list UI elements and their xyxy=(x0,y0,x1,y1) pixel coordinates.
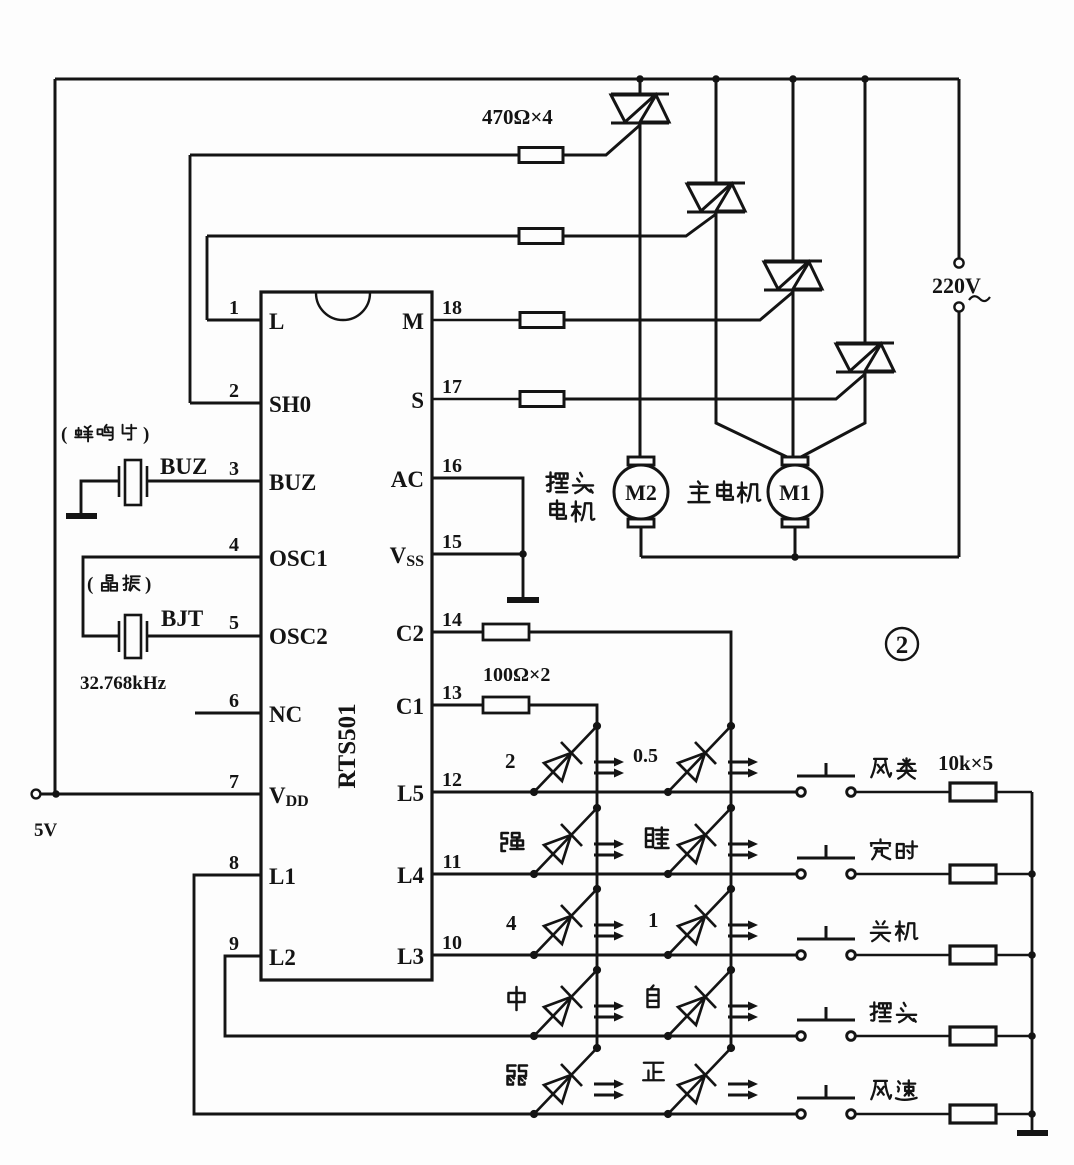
triac VS3 xyxy=(764,261,822,290)
ground: buzzer xyxy=(66,513,97,519)
junction: bus / triac VS3 anode xyxy=(789,75,797,83)
svg-text:12: 12 xyxy=(442,769,462,791)
label: 强 xyxy=(502,833,524,851)
pushbutton S4 bai tou (oscillate) xyxy=(797,1007,856,1040)
resistor 470ohm (VS1 gate) xyxy=(519,148,563,163)
terminal: 5V supply xyxy=(32,790,41,799)
wire: triac VS4 to motor M1 xyxy=(801,372,865,457)
junction: M1 / neutral xyxy=(791,553,799,561)
wire: triac VS3 to motor M1 xyxy=(792,290,795,457)
label: 弱 xyxy=(508,1066,528,1085)
wire: pin 9 L2 to fourth LED row xyxy=(225,956,797,1036)
wire: pin 2 SH0 xyxy=(190,402,261,405)
LED: 自 natural wind xyxy=(668,970,731,1036)
wire: S5 to resistor xyxy=(855,1113,951,1116)
wire: pin 14 C2 xyxy=(432,631,483,634)
resistor 10k (row 3) xyxy=(950,946,996,964)
junction: bus row5 xyxy=(1028,1110,1036,1118)
svg-text:(: ( xyxy=(87,574,93,595)
svg-text:L3: L3 xyxy=(397,944,424,969)
pushbutton S5 feng su (wind speed) xyxy=(797,1085,856,1118)
resistor 470ohm (VS3 gate) xyxy=(520,313,564,328)
wire: S2 to resistor xyxy=(855,873,951,876)
resistor 470ohm (VS4 gate) xyxy=(520,392,564,407)
svg-text:14: 14 xyxy=(442,609,462,631)
label: 主电机 (main motor) xyxy=(688,481,709,502)
terminal: 220V line xyxy=(954,258,963,267)
LED: 睡 sleep wind xyxy=(668,808,731,874)
wire: pin1 riser xyxy=(206,236,209,320)
wire: resistor to ground bus xyxy=(996,1113,1032,1116)
wire: bus to triac VS2 xyxy=(715,79,718,183)
label: (蜂鸣片) piezo plate xyxy=(75,426,92,442)
svg-text:17: 17 xyxy=(442,376,462,398)
wire: pin 13 C1 xyxy=(432,704,483,707)
LED: 1h (timer) xyxy=(668,889,731,955)
svg-text:5V: 5V xyxy=(34,820,58,841)
svg-text:NC: NC xyxy=(269,702,302,727)
junction: 5V rail / pin7 xyxy=(52,790,60,798)
LED: 0.5h (timer) xyxy=(668,726,731,792)
wire: buzzer to pin 3 BUZ xyxy=(147,480,261,483)
resistor 100ohm (C2) xyxy=(483,624,529,640)
svg-text:7: 7 xyxy=(229,771,239,793)
wire: pin 6 NC stub xyxy=(195,712,261,715)
svg-text:10k×5: 10k×5 xyxy=(938,751,993,775)
triac VS2 xyxy=(687,183,745,212)
svg-text:): ) xyxy=(143,424,149,445)
LED: 强 strong wind xyxy=(534,808,597,874)
svg-text:0.5: 0.5 xyxy=(633,745,658,767)
wire: resistor to VS1 gate xyxy=(563,125,640,155)
resistor 10k (row 1) xyxy=(950,783,996,801)
wire: S3 to resistor xyxy=(855,954,951,957)
wire: resistor to VS2 gate xyxy=(563,214,716,236)
wire: resistor to ground bus xyxy=(996,1035,1032,1038)
svg-text:5: 5 xyxy=(229,612,239,634)
wire: motor neutral return xyxy=(641,556,959,559)
label: feng su (wind speed) xyxy=(871,1081,891,1099)
triac VS4 xyxy=(836,343,894,372)
junction: AC / VSS xyxy=(519,550,527,558)
wire: resistor to ground bus xyxy=(996,791,1032,794)
motor M1 (main motor) xyxy=(768,457,822,527)
wire: C2 column xyxy=(529,632,731,1049)
motor M2 (oscillating head) xyxy=(614,457,668,527)
ground: VSS xyxy=(507,597,539,603)
svg-text:L4: L4 xyxy=(397,863,424,888)
wire: resistor to VS4 gate xyxy=(564,374,865,399)
wire: 220V neutral to motors xyxy=(958,312,961,557)
svg-text:2: 2 xyxy=(896,632,909,659)
wire: pin 4 OSC1 to crystal xyxy=(83,557,261,636)
label: 电机 (motor) xyxy=(550,500,566,518)
svg-text:BUZ: BUZ xyxy=(160,454,207,479)
svg-text:(: ( xyxy=(61,424,67,445)
junction: bus row3 xyxy=(1028,951,1036,959)
svg-text:6: 6 xyxy=(229,690,239,712)
svg-text:2: 2 xyxy=(505,749,516,773)
terminal: 220V neutral xyxy=(954,302,963,311)
wire: pin 16 AC xyxy=(432,478,523,554)
wire: pin 10 L3 row xyxy=(432,954,797,957)
wire: M1 to neutral xyxy=(794,527,797,557)
wire: S gate row (pin17) xyxy=(432,398,520,401)
wire: M2 to neutral xyxy=(640,527,643,557)
svg-text:32.768kHz: 32.768kHz xyxy=(80,673,167,694)
label: ding shi (timer) xyxy=(871,839,890,859)
svg-text:BJT: BJT xyxy=(161,606,203,631)
pushbutton S1 feng lei (wind type) xyxy=(797,763,856,796)
svg-text:4: 4 xyxy=(506,911,517,935)
svg-text:16: 16 xyxy=(442,455,462,477)
label: guan ji (power off) xyxy=(871,921,890,941)
resistor 100ohm (C1) xyxy=(483,697,529,713)
LED: 中 medium wind xyxy=(534,970,597,1036)
svg-text:2: 2 xyxy=(229,380,239,402)
wire: bus to triac VS3 xyxy=(792,79,795,261)
wire: pin 1 L xyxy=(207,319,261,322)
svg-text:L5: L5 xyxy=(397,781,424,806)
LED: 2h (timer) xyxy=(534,726,597,792)
svg-text:470Ω×4: 470Ω×4 xyxy=(482,105,553,129)
wire: bus to triac VS1 xyxy=(639,79,642,94)
resistor 10k (row 2) xyxy=(950,865,996,883)
IC U1 RTS501 xyxy=(261,292,432,980)
svg-text:S: S xyxy=(411,388,424,413)
label: (晶振) crystal xyxy=(102,575,117,591)
svg-text:15: 15 xyxy=(442,531,462,553)
wire: pin 8 L1 to bottom LED row xyxy=(194,875,797,1114)
junction: bus row2 xyxy=(1028,870,1036,878)
label: bai tou (oscillate) xyxy=(870,1002,890,1021)
label: feng lei (wind type) xyxy=(871,759,891,777)
buzzer BUZ (piezo) xyxy=(125,460,141,505)
svg-text:SH0: SH0 xyxy=(269,392,311,417)
resistor 470ohm (VS2 gate) xyxy=(519,229,563,244)
pushbutton S3 guan ji (power off) xyxy=(797,926,856,959)
wire: resistor to ground bus xyxy=(996,873,1032,876)
wire: S4 to resistor xyxy=(855,1035,951,1038)
svg-text:L: L xyxy=(269,309,284,334)
wire: buzzer to ground xyxy=(81,481,119,513)
svg-text:L2: L2 xyxy=(269,945,296,970)
svg-text:): ) xyxy=(145,574,151,595)
wire: 5V to pin 7 VDD xyxy=(41,793,261,796)
svg-text:OSC2: OSC2 xyxy=(269,624,328,649)
svg-text:18: 18 xyxy=(442,297,462,319)
ground: button bus xyxy=(1017,1130,1048,1136)
wire: C1 column xyxy=(529,705,597,1049)
wire: pin 15 VSS xyxy=(432,553,523,556)
svg-text:OSC1: OSC1 xyxy=(269,546,328,571)
svg-text:9: 9 xyxy=(229,933,239,955)
label: 中 xyxy=(509,987,525,1010)
label: 正 xyxy=(643,1063,664,1080)
svg-text:RTS501: RTS501 xyxy=(334,703,361,788)
svg-text:C2: C2 xyxy=(396,621,424,646)
wire: triac VS2 to motor M1 xyxy=(716,212,787,457)
wire: bus to 220V terminal xyxy=(958,79,961,258)
wire: resistor to VS3 gate xyxy=(564,292,793,320)
wire: crystal to pin 5 OSC2 xyxy=(147,635,261,638)
resistor 10k (row 5) xyxy=(950,1105,996,1123)
svg-text:220V: 220V xyxy=(932,273,981,298)
svg-text:AC: AC xyxy=(391,467,424,492)
label: 自 xyxy=(647,985,658,1007)
triac VS1 (oscillating-head motor) xyxy=(611,94,669,123)
label: 摆头 (oscillating head) xyxy=(546,472,567,492)
svg-text:1: 1 xyxy=(648,908,659,932)
resistor 10k (row 4) xyxy=(950,1027,996,1045)
svg-text:13: 13 xyxy=(442,682,462,704)
junction: bus / triac VS1 anode xyxy=(636,75,644,83)
wire: triac VS1 to motor M2 xyxy=(639,123,642,457)
wire: VSS to ground xyxy=(522,554,525,597)
svg-text:8: 8 xyxy=(229,852,239,874)
wire: S1 to resistor xyxy=(855,791,951,794)
svg-text:4: 4 xyxy=(229,534,239,556)
svg-text:3: 3 xyxy=(229,458,239,480)
wire: SH0 gate row (pin2) xyxy=(190,154,519,157)
LED: 弱 weak wind xyxy=(534,1048,597,1114)
wire: resistor to ground bus xyxy=(996,954,1032,957)
svg-text:L1: L1 xyxy=(269,864,296,889)
svg-text:M: M xyxy=(402,309,424,334)
label: figure number 2 (circled) xyxy=(886,628,918,660)
junction: bus / triac VS2 anode xyxy=(712,75,720,83)
wire: bus to triac VS4 xyxy=(864,79,867,343)
label: 睡 xyxy=(646,828,669,849)
crystal BJT 32.768kHz xyxy=(125,615,141,658)
wire: pin2 riser xyxy=(189,155,192,403)
junction: bus row4 xyxy=(1028,1032,1036,1040)
LED: 正 normal wind xyxy=(668,1048,731,1114)
pushbutton S2 ding shi (timer) xyxy=(797,845,856,878)
svg-text:10: 10 xyxy=(442,932,462,954)
svg-text:1: 1 xyxy=(229,297,239,319)
svg-text:100Ω×2: 100Ω×2 xyxy=(483,664,550,686)
svg-text:11: 11 xyxy=(443,851,462,873)
wire: L gate row (pin1) xyxy=(207,235,519,238)
junction: bus / triac VS4 anode xyxy=(861,75,869,83)
LED: 4h (timer) xyxy=(534,889,597,955)
wire: left 5V rail xyxy=(54,79,57,794)
wire: pin 12 L5 row xyxy=(432,791,797,794)
svg-text:BUZ: BUZ xyxy=(269,470,316,495)
wire: M gate row (pin18) xyxy=(432,319,520,322)
wire: pin 11 L4 row xyxy=(432,873,797,876)
wire: right ground bus xyxy=(1031,792,1034,1131)
svg-text:M1: M1 xyxy=(779,480,811,505)
svg-text:M2: M2 xyxy=(625,480,657,505)
wire: 220V top bus xyxy=(55,78,959,81)
svg-text:C1: C1 xyxy=(396,694,424,719)
